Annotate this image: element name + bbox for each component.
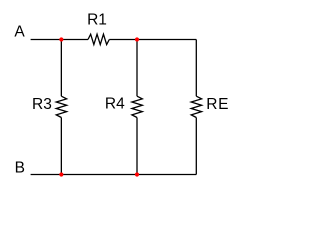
- svg-text:RE: RE: [206, 96, 229, 113]
- svg-text:R1: R1: [87, 12, 107, 29]
- svg-text:B: B: [15, 159, 25, 176]
- svg-text:R4: R4: [105, 95, 125, 112]
- svg-text:R3: R3: [32, 96, 52, 113]
- svg-text:A: A: [14, 24, 25, 41]
